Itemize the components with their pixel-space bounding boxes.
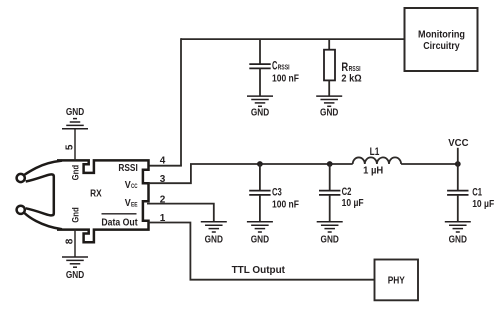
Monitoring Circuitry box xyxy=(405,8,478,71)
wire: pin 1 data out to PHY xyxy=(149,223,375,280)
svg-text:GND: GND xyxy=(66,107,84,118)
wire: top bus from RSSI riser to Monitoring Circuitry xyxy=(181,38,405,40)
svg-text:C1: C1 xyxy=(472,186,482,198)
capacitor CRSSI xyxy=(249,39,270,96)
wire: VCC rail right of L1 xyxy=(401,163,458,165)
svg-text:Data Out: Data Out xyxy=(101,218,138,229)
svg-text:100 nF: 100 nF xyxy=(272,200,299,211)
RX antenna claw lower prong xyxy=(17,206,62,230)
wire: pin 4 stub xyxy=(149,165,182,167)
svg-text:C3: C3 xyxy=(272,186,282,198)
svg-text:GND: GND xyxy=(251,234,269,245)
svg-text:CC: CC xyxy=(131,183,138,190)
label L1 1uH xyxy=(363,146,383,177)
label C2 10 uF xyxy=(342,186,364,209)
svg-text:RSSI: RSSI xyxy=(349,66,361,73)
label C1 10 uF xyxy=(472,186,494,210)
inductor L1 xyxy=(353,157,401,164)
svg-text:PHY: PHY xyxy=(388,275,405,286)
pin label Data Out (active low) xyxy=(101,214,138,229)
svg-text:Circuitry: Circuitry xyxy=(423,41,460,52)
wire: pin 5 to ground xyxy=(74,129,76,161)
svg-text:5: 5 xyxy=(65,144,76,150)
ground (C1) xyxy=(445,222,471,246)
svg-text:1 µH: 1 µH xyxy=(363,165,383,176)
svg-text:Gnd: Gnd xyxy=(70,207,80,223)
pin label Vcc xyxy=(125,179,138,191)
RX module outline (body with leads) xyxy=(57,160,149,242)
svg-text:EE: EE xyxy=(131,201,138,208)
wire: pin 3 to VCC rail xyxy=(149,164,191,183)
svg-text:L1: L1 xyxy=(370,146,380,158)
capacitor C3 xyxy=(249,164,270,222)
node junction at VCC xyxy=(455,161,461,167)
svg-text:GND: GND xyxy=(66,270,84,281)
ground (C3) xyxy=(247,222,273,246)
capacitor C2 xyxy=(319,164,340,222)
wire: RSSI vertical riser xyxy=(180,38,182,166)
label RRSSI 2 kOhm xyxy=(341,60,361,85)
ground (pin 2) xyxy=(201,222,227,246)
svg-text:10 µF: 10 µF xyxy=(472,199,494,210)
svg-text:V: V xyxy=(125,197,131,209)
ground (C2) xyxy=(317,222,343,246)
wire: VCC rail left of L1 xyxy=(190,163,353,165)
svg-text:GND: GND xyxy=(205,234,223,245)
svg-text:RX: RX xyxy=(90,189,102,200)
ground (CRSSI) xyxy=(247,96,273,119)
ground (pin 5, pointing up) xyxy=(62,107,88,129)
node junction at C2 xyxy=(327,161,333,167)
wire: pin 8 to ground xyxy=(74,230,76,258)
pin label Vee xyxy=(125,197,138,209)
svg-text:4: 4 xyxy=(160,156,166,167)
ground (RRSSI) xyxy=(316,96,342,119)
svg-text:GND: GND xyxy=(321,234,339,245)
capacitor C1 xyxy=(447,191,468,222)
PHY box xyxy=(375,260,419,301)
label CRSSI 100 nF xyxy=(272,58,299,84)
svg-text:TTL Output: TTL Output xyxy=(232,265,286,276)
svg-text:GND: GND xyxy=(320,108,338,119)
svg-text:GND: GND xyxy=(251,108,269,119)
ground (pin 8) xyxy=(62,257,88,281)
svg-text:Monitoring: Monitoring xyxy=(418,30,465,41)
label C3 100 nF xyxy=(272,186,299,210)
svg-text:Gnd: Gnd xyxy=(70,165,80,181)
svg-text:VCC: VCC xyxy=(448,138,468,149)
VCC supply xyxy=(448,138,468,191)
svg-text:RSSI: RSSI xyxy=(278,65,290,72)
wire: pin 2 to ground xyxy=(147,204,214,222)
svg-text:C2: C2 xyxy=(342,186,352,198)
RX antenna claw upper prong xyxy=(17,161,62,216)
svg-text:10 µF: 10 µF xyxy=(342,198,364,209)
svg-text:100 nF: 100 nF xyxy=(272,73,299,84)
svg-text:GND: GND xyxy=(449,234,467,245)
resistor RRSSI xyxy=(324,39,335,96)
svg-text:RSSI: RSSI xyxy=(118,163,138,174)
svg-text:R: R xyxy=(341,60,348,74)
node junction at C3 xyxy=(257,161,263,167)
svg-text:2 kΩ: 2 kΩ xyxy=(341,73,361,84)
svg-text:8: 8 xyxy=(65,238,76,244)
svg-text:V: V xyxy=(125,179,131,191)
